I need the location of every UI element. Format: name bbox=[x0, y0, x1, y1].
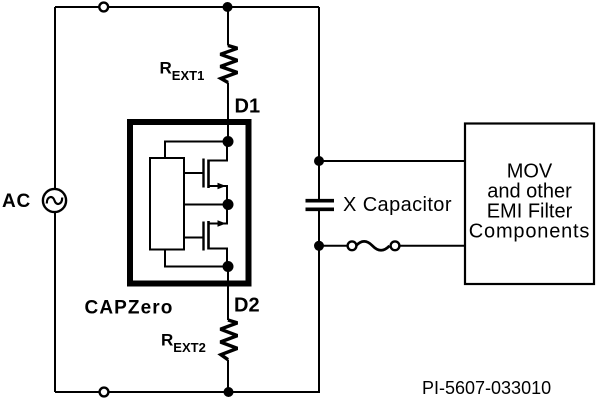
node top junction bbox=[223, 2, 233, 12]
svg-text:REXT1: REXT1 bbox=[160, 59, 205, 84]
wire gate Q2 bbox=[184, 237, 204, 239]
AC source bbox=[43, 189, 66, 212]
svg-text:X Capacitor: X Capacitor bbox=[343, 194, 452, 216]
wire to fuse bbox=[319, 245, 348, 247]
wire gate Q1 bbox=[184, 172, 204, 174]
node X-cap top junction bbox=[314, 156, 324, 166]
box MOV bbox=[465, 124, 594, 285]
wire box to REXT2 bbox=[227, 267, 229, 321]
node bottom junction bbox=[224, 387, 234, 397]
wire bottom rail bbox=[55, 391, 320, 393]
transistor Q1 bbox=[204, 142, 228, 205]
node center junction bbox=[223, 199, 234, 210]
control block rectangle bbox=[150, 158, 184, 250]
node X-cap bottom junction bbox=[314, 241, 324, 251]
svg-text:D1: D1 bbox=[235, 96, 261, 118]
node D2 junction bbox=[223, 261, 234, 272]
wire X-cap top to MOV box bbox=[319, 160, 464, 162]
wire fuse to MOV box bbox=[400, 245, 465, 247]
svg-text:MOV: MOV bbox=[507, 161, 553, 183]
fuse terminal circle left bbox=[348, 241, 357, 250]
fuse wavy element bbox=[356, 241, 390, 250]
resistor REXT2 bbox=[220, 320, 237, 360]
node D1 junction bbox=[223, 136, 234, 147]
wire block middle to center node bbox=[184, 204, 228, 206]
wire REXT2 to bottom rail bbox=[227, 360, 229, 392]
resistor REXT1 bbox=[220, 46, 237, 83]
svg-text:D2: D2 bbox=[234, 295, 260, 317]
svg-text:PI-5607-033010: PI-5607-033010 bbox=[422, 378, 551, 398]
svg-text:CAPZero: CAPZero bbox=[85, 298, 174, 319]
wire REXT1 to box bbox=[227, 83, 229, 142]
wire X-cap upper stub bbox=[318, 161, 320, 199]
svg-text:REXT2: REXT2 bbox=[161, 331, 206, 356]
terminal open circle bottom bbox=[100, 388, 109, 397]
svg-text:AC: AC bbox=[2, 191, 31, 212]
wire X-branch drop from top rail bbox=[318, 7, 320, 161]
wire block top to node D1 bbox=[165, 142, 228, 159]
wire top rail bbox=[55, 6, 319, 8]
svg-text:Components: Components bbox=[469, 221, 590, 243]
wire X-cap lower stub bbox=[318, 211, 320, 246]
wire left rail bbox=[54, 7, 56, 392]
wire X-branch to bottom rail bbox=[318, 246, 320, 392]
fuse terminal circle right bbox=[391, 241, 400, 250]
svg-text:EMI Filter: EMI Filter bbox=[487, 201, 573, 223]
terminal open circle top bbox=[99, 3, 108, 12]
wire main vertical top segment bbox=[227, 7, 229, 46]
svg-text:and other: and other bbox=[487, 181, 572, 203]
label MOV box text bbox=[469, 161, 590, 243]
AC source sine bbox=[47, 197, 62, 204]
capacitor X plate top bbox=[306, 199, 335, 203]
transistor Q2 bbox=[204, 205, 228, 267]
IC box CAPZero bbox=[130, 122, 249, 284]
capacitor X plate bottom bbox=[306, 208, 335, 212]
wire block bottom to node D2 bbox=[165, 250, 228, 267]
